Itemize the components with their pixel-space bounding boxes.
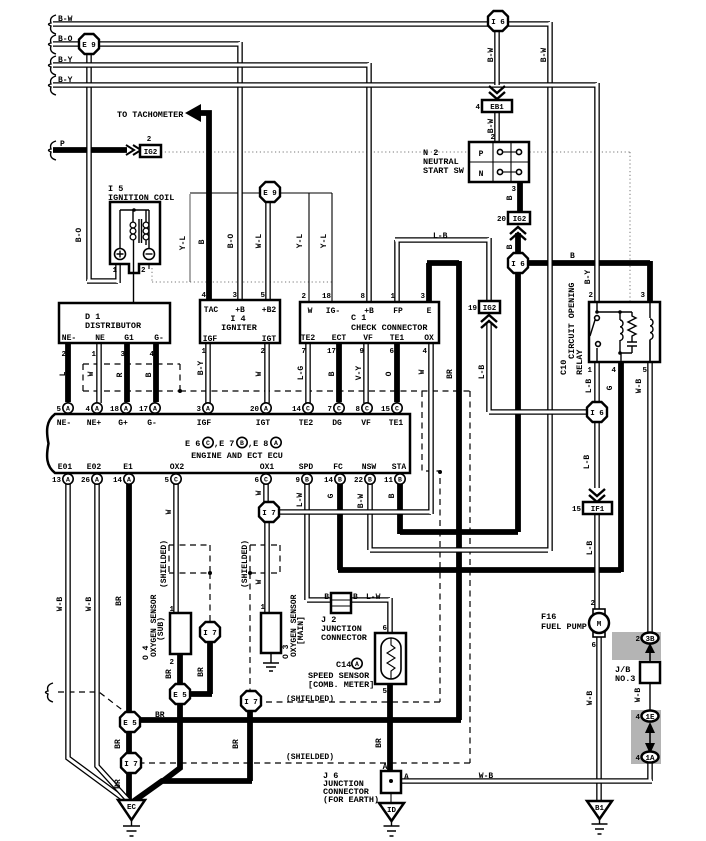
- svg-text:L-B: L-B: [478, 365, 487, 380]
- svg-text:IF1: IF1: [591, 506, 605, 514]
- wire G1 bold: [124, 343, 130, 402]
- svg-text:2: 2: [260, 348, 265, 356]
- svg-text:17: 17: [327, 348, 336, 356]
- svg-text:7: 7: [301, 348, 306, 356]
- svg-text:4: 4: [422, 348, 427, 356]
- svg-text:IG2: IG2: [483, 305, 497, 313]
- svg-text:3: 3: [640, 292, 645, 300]
- svg-text:5: 5: [164, 477, 169, 485]
- svg-text:E 5: E 5: [173, 692, 187, 700]
- svg-text:BR: BR: [446, 369, 455, 379]
- dashed shield OX1: [250, 545, 280, 691]
- dashed shield box distributor: [83, 364, 180, 391]
- svg-text:FUEL PUMP: FUEL PUMP: [541, 622, 587, 632]
- wire I7 shield drain bold BR to EC: [134, 709, 252, 801]
- svg-text:,E 8: ,E 8: [248, 439, 268, 449]
- svg-text:8: 8: [360, 293, 365, 301]
- svg-text:I 6: I 6: [590, 410, 604, 418]
- ECU band: [47, 414, 410, 473]
- wire W-B J/B box to 1E: [649, 683, 651, 711]
- svg-text:IG2: IG2: [513, 216, 527, 224]
- svg-text:8: 8: [355, 406, 360, 414]
- svg-text:2: 2: [61, 351, 66, 359]
- svg-text:L-B: L-B: [583, 455, 592, 470]
- svg-text:L-W: L-W: [296, 493, 305, 508]
- junction dot dashed OX1: [248, 571, 252, 575]
- svg-text:NE-: NE-: [62, 334, 76, 343]
- svg-text:NE+: NE+: [87, 419, 102, 428]
- relay coil: [620, 312, 632, 362]
- coil minus terminal: [144, 249, 155, 260]
- wire IGT W: [264, 343, 270, 403]
- svg-text:1: 1: [201, 348, 206, 356]
- check connector C1 box: [300, 302, 439, 343]
- svg-text:B-W: B-W: [487, 119, 496, 134]
- svg-text:18: 18: [322, 293, 332, 301]
- junction dot dashed OX2: [208, 571, 212, 575]
- dotted shield line from IG2 to right: [161, 152, 630, 302]
- svg-text:OX: OX: [424, 334, 434, 343]
- svg-text:4: 4: [475, 104, 480, 112]
- wire E01 W-B: [68, 484, 125, 800]
- connector box EB1: [482, 100, 512, 112]
- svg-text:B: B: [338, 477, 342, 484]
- svg-text:STA: STA: [392, 463, 407, 472]
- svg-text:13: 13: [52, 477, 62, 485]
- svg-text:BR: BR: [232, 739, 241, 749]
- wire W-L E9 to +B2: [265, 202, 271, 302]
- wire W-B fuel pump to B1 ground: [596, 637, 602, 800]
- svg-text:3: 3: [232, 292, 237, 300]
- svg-text:C: C: [264, 477, 268, 484]
- wire O3 case ground stem: [270, 653, 272, 663]
- ground B1: [587, 801, 612, 819]
- svg-text:B-O: B-O: [227, 234, 236, 249]
- wire E02 W-B: [97, 484, 128, 800]
- wire B bold IG2 through I6 down to STA corner: [400, 233, 518, 534]
- oval 1E: [642, 711, 659, 722]
- svg-text:A: A: [66, 477, 70, 484]
- svg-text:15: 15: [381, 406, 391, 414]
- gray panel J/B No.3 upper: [612, 632, 661, 660]
- svg-text:A: A: [95, 477, 99, 484]
- svg-text:C: C: [365, 406, 369, 413]
- dashed shield left brace diagonal: [58, 692, 125, 712]
- svg-text:B-Y: B-Y: [197, 361, 206, 376]
- svg-text:W-B: W-B: [85, 597, 94, 612]
- svg-text:3: 3: [120, 351, 125, 359]
- N2 P contact: [497, 149, 502, 154]
- svg-text:1: 1: [390, 293, 395, 301]
- svg-text:(SHIELDED): (SHIELDED): [286, 753, 334, 762]
- junction dot dashed speed: [438, 470, 442, 474]
- svg-text:V-Y: V-Y: [355, 366, 364, 381]
- oval 1A: [642, 752, 659, 763]
- chevron P wire: [126, 145, 141, 155]
- neutral start switch N2 box: [469, 142, 529, 182]
- svg-text:B-Y: B-Y: [58, 76, 73, 85]
- svg-text:5: 5: [260, 292, 265, 300]
- ignition coil I5 box: [110, 202, 160, 273]
- svg-text:+B: +B: [364, 307, 374, 316]
- svg-text:BR: BR: [114, 739, 123, 749]
- svg-text:B: B: [240, 440, 244, 447]
- svg-text:W-B: W-B: [479, 772, 494, 781]
- svg-text:BR: BR: [375, 738, 384, 748]
- svg-text:I 7: I 7: [244, 699, 258, 707]
- ground ID: [379, 803, 404, 821]
- svg-text:1A: 1A: [645, 755, 655, 763]
- svg-text:7: 7: [327, 406, 332, 414]
- connector box IF1: [583, 502, 612, 514]
- svg-text:ECT: ECT: [332, 334, 347, 343]
- svg-text:IGNITION COIL: IGNITION COIL: [108, 193, 174, 203]
- svg-text:W: W: [165, 509, 174, 514]
- svg-text:DG: DG: [332, 419, 342, 428]
- svg-text:G-: G-: [147, 419, 157, 428]
- wire OX1 W upper: [263, 484, 269, 503]
- igniter I4 box: [200, 300, 280, 343]
- relay secondary coil: [649, 302, 651, 362]
- svg-text:OX1: OX1: [260, 463, 275, 472]
- wire W-B J6 to 1A: [401, 762, 652, 781]
- svg-text:VF: VF: [363, 334, 373, 343]
- arrows between 1E and 1A: [649, 726, 651, 750]
- junction block J/B No.3 box: [640, 662, 660, 683]
- svg-text:IG-: IG-: [326, 307, 340, 316]
- svg-text:P: P: [60, 140, 65, 149]
- svg-text:L-G: L-G: [297, 366, 306, 381]
- octagon I7 oxygen junction: [259, 502, 279, 522]
- svg-text:1E: 1E: [645, 714, 655, 722]
- svg-text:O: O: [385, 371, 394, 376]
- svg-text:I 6: I 6: [491, 19, 505, 27]
- svg-text:ID: ID: [387, 807, 397, 815]
- svg-text:B: B: [324, 593, 329, 602]
- ground EC: [118, 800, 145, 820]
- svg-text:C: C: [306, 406, 310, 413]
- svg-text:M: M: [597, 621, 602, 629]
- relay internals: switch: [597, 302, 632, 362]
- svg-text:W-B: W-B: [635, 379, 644, 394]
- svg-text:VF: VF: [361, 419, 371, 428]
- svg-text:E 5: E 5: [123, 720, 137, 728]
- svg-text:CHECK CONNECTOR: CHECK CONNECTOR: [351, 323, 428, 333]
- wire TE1 bold O: [394, 343, 400, 402]
- svg-text:W-B: W-B: [586, 691, 595, 706]
- dashed shield long line below connectors: [180, 390, 470, 392]
- svg-text:L-B: L-B: [585, 379, 594, 394]
- svg-text:,E 7: ,E 7: [214, 439, 234, 449]
- svg-text:BR: BR: [115, 596, 124, 606]
- svg-text:TE1: TE1: [390, 334, 405, 343]
- svg-text:G+: G+: [118, 419, 128, 428]
- arrow up into IG2 19: [481, 315, 497, 328]
- wire IGF B-Y: [205, 343, 211, 403]
- wire OX1 W lower to O3: [264, 521, 270, 613]
- svg-text:TO TACHOMETER: TO TACHOMETER: [117, 110, 184, 120]
- svg-text:B: B: [570, 252, 575, 261]
- svg-text:3: 3: [196, 406, 201, 414]
- wire E1 bold BR to EC: [126, 484, 132, 803]
- wire NE- bold: [65, 343, 71, 402]
- svg-text:IGT: IGT: [262, 335, 277, 344]
- svg-text:3: 3: [420, 293, 425, 301]
- wire G- bold: [153, 343, 159, 402]
- arrow down into IF1: [589, 489, 605, 502]
- svg-text:E02: E02: [87, 463, 102, 472]
- svg-text:Y-L: Y-L: [320, 234, 329, 249]
- svg-text:B-W: B-W: [540, 48, 549, 63]
- svg-text:A: A: [66, 406, 70, 413]
- octagon E5 main: [120, 712, 140, 732]
- arrow up into 3B: [649, 648, 651, 662]
- svg-text:19: 19: [468, 305, 478, 313]
- svg-text:W-B: W-B: [56, 597, 65, 612]
- octagon I7 earth: [121, 753, 141, 773]
- svg-text:B-W: B-W: [357, 494, 366, 509]
- wire G bold FC to relay pin4: [338, 362, 621, 572]
- svg-text:TAC: TAC: [204, 306, 219, 315]
- junction dot dashed distributor: [178, 389, 182, 393]
- wire L-B loop FP to 19 IG2: [395, 238, 489, 302]
- wire W I7 to C1 OX: [269, 343, 431, 514]
- svg-text:(FOR EARTH): (FOR EARTH): [323, 795, 379, 805]
- svg-text:9: 9: [295, 477, 300, 485]
- svg-text:2: 2: [490, 134, 495, 142]
- svg-text:I 7: I 7: [124, 761, 138, 769]
- svg-text:ENGINE AND ECT ECU: ENGINE AND ECT ECU: [191, 451, 283, 461]
- svg-text:1: 1: [260, 604, 265, 612]
- svg-text:18: 18: [110, 406, 120, 414]
- svg-text:B1: B1: [595, 805, 605, 813]
- svg-text:IG2: IG2: [144, 149, 158, 157]
- circuit opening relay C10 box: [589, 302, 660, 362]
- wire B-O from E9 to ignition coil: [87, 44, 118, 283]
- svg-text:A: A: [127, 477, 131, 484]
- svg-text:B-W: B-W: [487, 48, 496, 63]
- svg-text:EB1: EB1: [490, 104, 504, 112]
- svg-text:CIRCUIT OPENING: CIRCUIT OPENING: [567, 282, 577, 359]
- svg-text:E 6: E 6: [185, 439, 200, 449]
- wire SPD L-W to J2: [307, 484, 331, 600]
- svg-text:14: 14: [324, 477, 334, 485]
- dotted Y-L shield bottom: [152, 268, 332, 282]
- wire NE W: [96, 343, 102, 403]
- svg-text:W-L: W-L: [255, 234, 264, 249]
- braces bus wires: [49, 15, 57, 34]
- octagon I6 top: [488, 11, 508, 31]
- svg-text:W: W: [255, 371, 264, 376]
- svg-text:BR: BR: [155, 711, 165, 720]
- svg-text:A: A: [95, 406, 99, 413]
- svg-text:B: B: [305, 477, 309, 484]
- svg-text:2: 2: [590, 600, 595, 608]
- svg-text:G-: G-: [154, 334, 164, 343]
- wire NSW B-W: [370, 484, 548, 550]
- svg-text:B-Y: B-Y: [58, 56, 73, 65]
- svg-text:B-O: B-O: [58, 35, 73, 44]
- octagon I7 sub sensor: [200, 622, 220, 642]
- svg-text:BR: BR: [114, 779, 123, 789]
- wire J6 to ID ground: [390, 793, 392, 803]
- svg-text:DISTRIBUTOR: DISTRIBUTOR: [85, 321, 142, 331]
- svg-text:B: B: [506, 195, 515, 200]
- svg-text:TE1: TE1: [389, 419, 404, 428]
- wire TE2 L-G: [305, 343, 311, 403]
- svg-text:2: 2: [635, 636, 640, 644]
- svg-text:L-B: L-B: [586, 541, 595, 556]
- svg-text:4: 4: [149, 351, 154, 359]
- svg-text:Y-L: Y-L: [296, 234, 305, 249]
- svg-text:BR: BR: [197, 667, 206, 677]
- svg-text:A: A: [153, 406, 157, 413]
- svg-text:W: W: [255, 579, 264, 584]
- svg-text:W: W: [418, 369, 427, 374]
- svg-text:C: C: [395, 406, 399, 413]
- svg-text:5: 5: [382, 688, 387, 696]
- wire I7 to E5 bold BR: [188, 640, 212, 694]
- arrowhead to tachometer: [185, 104, 201, 122]
- svg-text:B: B: [145, 372, 154, 377]
- svg-text:OX2: OX2: [170, 463, 185, 472]
- wire B-W EB1 to N2: [494, 112, 500, 142]
- octagon E9 top: [79, 34, 99, 54]
- brace P wire: [49, 141, 57, 160]
- wire Y-L left vertical: [189, 194, 191, 282]
- svg-text:B: B: [388, 493, 397, 498]
- oxygen sensor O3 box: [261, 613, 281, 653]
- svg-text:START SW: START SW: [423, 166, 465, 176]
- svg-text:W: W: [308, 307, 313, 316]
- ignition coil internals: [120, 210, 149, 303]
- svg-text:14: 14: [113, 477, 123, 485]
- svg-text:5: 5: [642, 367, 647, 375]
- svg-text:26: 26: [81, 477, 91, 485]
- svg-text:9: 9: [359, 348, 364, 356]
- wire Y-L horizontal E9: [190, 192, 332, 194]
- N2 N contact: [497, 169, 502, 174]
- speed sensor box: [375, 633, 406, 684]
- svg-text:4: 4: [611, 367, 616, 375]
- svg-text:B-W: B-W: [58, 15, 73, 24]
- wire bus B-O: [53, 42, 240, 302]
- wire bus B-Y third: [53, 63, 369, 302]
- wire VF V-Y: [363, 343, 369, 403]
- svg-text:20: 20: [250, 406, 260, 414]
- svg-text:TE2: TE2: [299, 419, 314, 428]
- svg-text:B-Y: B-Y: [584, 270, 593, 285]
- junction connector J2 box: [331, 593, 351, 613]
- svg-text:NO.3: NO.3: [615, 674, 635, 684]
- wire bus B-W top: [53, 22, 550, 551]
- svg-text:SPD: SPD: [299, 463, 314, 472]
- svg-text:N: N: [479, 170, 484, 179]
- svg-text:G1: G1: [124, 334, 134, 343]
- svg-text:W: W: [87, 371, 96, 376]
- svg-text:1: 1: [112, 267, 117, 275]
- svg-text:1: 1: [587, 367, 592, 375]
- wire E bold BR from C1 to E5: [140, 261, 461, 720]
- svg-text:B-O: B-O: [75, 228, 84, 243]
- wire TAC bold to tachometer: [192, 113, 209, 302]
- wire W-B relay pin5 to 3B: [647, 362, 653, 632]
- svg-text:A: A: [355, 661, 359, 668]
- arrow down into EB1: [489, 86, 505, 99]
- svg-text:11: 11: [384, 477, 394, 485]
- svg-text:[MAIN]: [MAIN]: [297, 616, 306, 645]
- ECU top pin circles and numbers: [63, 403, 73, 413]
- svg-text:A: A: [404, 773, 409, 782]
- svg-text:(SHIELDED): (SHIELDED): [241, 540, 250, 588]
- svg-text:2: 2: [588, 292, 593, 300]
- svg-text:6: 6: [389, 348, 394, 356]
- octagon I6 middle: [508, 253, 528, 273]
- svg-text:3: 3: [511, 186, 516, 194]
- svg-text:(SHIELDED): (SHIELDED): [286, 695, 334, 704]
- wire B-W I6 to EB1: [494, 31, 500, 85]
- svg-text:(SUB): (SUB): [157, 617, 166, 641]
- svg-text:G: G: [606, 385, 615, 390]
- wire L-B relay pin1 to I6 to IF1: [594, 362, 600, 610]
- svg-text:L-B: L-B: [433, 232, 448, 241]
- svg-text:Y-L: Y-L: [179, 236, 188, 251]
- svg-text:6: 6: [382, 625, 387, 633]
- octagon E5 sub sensor: [170, 684, 190, 704]
- svg-text:E 9: E 9: [82, 42, 96, 50]
- svg-text:W: W: [255, 490, 264, 495]
- octagon I6 right: [587, 402, 607, 422]
- svg-text:C10: C10: [559, 360, 569, 375]
- svg-text:NE-: NE-: [57, 419, 71, 428]
- svg-text:A: A: [264, 406, 268, 413]
- svg-text:EC: EC: [127, 804, 137, 812]
- relay capacitor: [627, 340, 637, 353]
- svg-text:14: 14: [292, 406, 302, 414]
- svg-text:E: E: [427, 307, 432, 316]
- svg-text:G: G: [327, 493, 336, 498]
- svg-text:IGF: IGF: [197, 419, 212, 428]
- octagon I7 shield: [241, 691, 261, 711]
- dashed shield OX2: [169, 545, 210, 622]
- svg-text:+B2: +B2: [262, 306, 277, 315]
- svg-text:BR: BR: [165, 669, 174, 679]
- svg-text:RELAY: RELAY: [575, 349, 585, 375]
- svg-text:A: A: [206, 406, 210, 413]
- svg-text:I 7: I 7: [203, 630, 217, 638]
- svg-text:20: 20: [497, 216, 507, 224]
- arrow up into IG2 20: [510, 227, 526, 240]
- svg-text:W-B: W-B: [634, 688, 643, 703]
- svg-text:6: 6: [591, 642, 596, 650]
- svg-text:B: B: [328, 371, 337, 376]
- svg-text:2: 2: [169, 659, 174, 667]
- svg-text:FC: FC: [333, 463, 343, 472]
- svg-text:4: 4: [201, 292, 206, 300]
- svg-text:4: 4: [635, 714, 640, 722]
- svg-text:A: A: [383, 763, 388, 772]
- oxygen sensor O4 box: [170, 613, 191, 654]
- svg-text:B: B: [198, 239, 207, 244]
- connector box IG2 (P wire): [140, 145, 161, 157]
- octagon E9 second: [260, 182, 280, 202]
- wire B bold I6 to relay pin3: [516, 261, 650, 302]
- svg-text:4: 4: [85, 406, 90, 414]
- svg-text:IGT: IGT: [256, 419, 271, 428]
- svg-text:B: B: [368, 477, 372, 484]
- coil plus terminal: [115, 249, 126, 260]
- svg-text:2: 2: [141, 267, 146, 275]
